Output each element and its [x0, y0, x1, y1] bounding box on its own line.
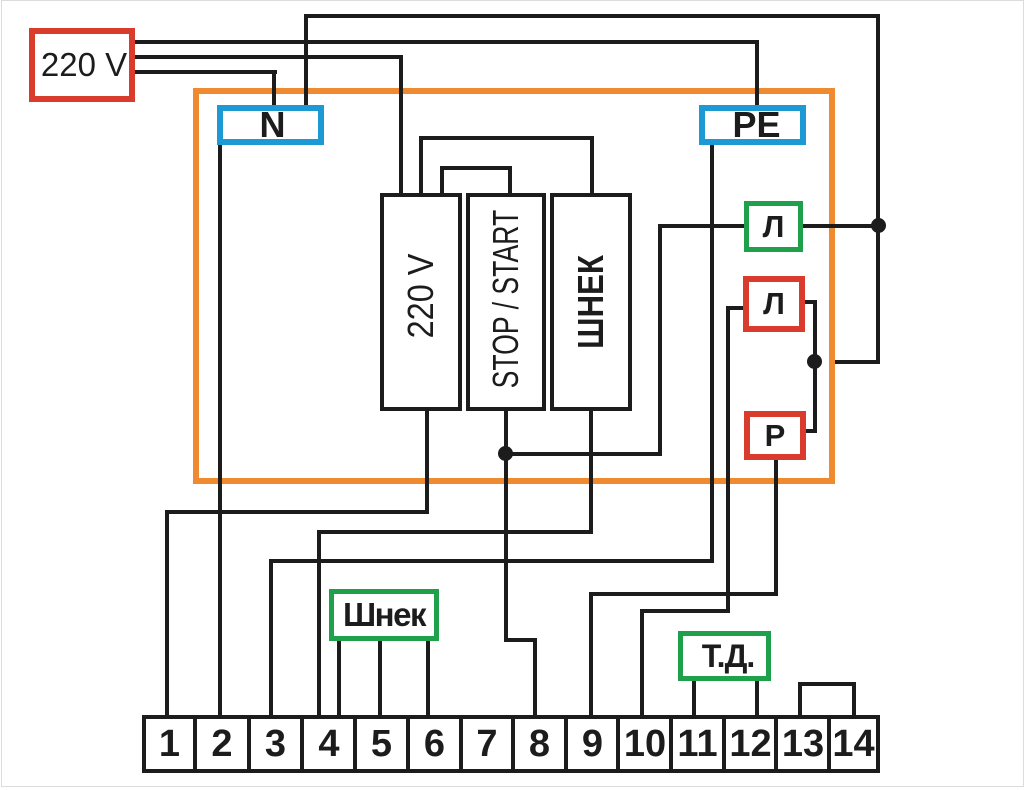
terminal 11: [669, 715, 726, 773]
wire Шнек pin 1 to terminal 4: [337, 641, 341, 715]
wire source to block 220 V: [135, 55, 403, 59]
wire Шнек pin 3 to terminal 6: [426, 641, 430, 715]
terminal 12: [722, 715, 779, 773]
wire block ШНЕК to terminal 4: [589, 411, 593, 534]
wire button Р to terminal 9: [774, 460, 778, 596]
wire source to N: [135, 70, 277, 74]
wire bridge terminals 13-14: [798, 682, 802, 715]
terminal 5: [353, 715, 410, 773]
lamp Л (green): [744, 201, 803, 252]
junction dot B: [807, 354, 822, 369]
wire Т.Д. pin 2 to terminal 12: [755, 681, 759, 715]
terminal 4: [300, 715, 358, 773]
terminal 10: [616, 715, 674, 773]
block 220 V: [380, 193, 462, 411]
block STOP / START: [466, 193, 546, 411]
terminal 14: [827, 715, 880, 773]
terminal 2: [193, 715, 251, 773]
wire button Л to terminal 10: [726, 306, 743, 310]
terminal N: [217, 105, 324, 145]
block ШНЕК: [550, 193, 632, 411]
terminal 13: [774, 715, 832, 773]
terminal strip 1-14: [142, 715, 880, 773]
junction dot C: [498, 446, 513, 461]
wire Т.Д. pin 1 to terminal 11: [692, 681, 696, 715]
button Р (red): [744, 411, 806, 460]
wire N to node A: [304, 14, 308, 107]
wire node A to control box: [876, 226, 880, 362]
wire block STOP/START to terminal 8: [504, 411, 508, 642]
button Л (red): [743, 276, 805, 332]
terminal 3: [247, 715, 304, 773]
orange control unit box: [193, 88, 835, 484]
label box Шнек: [329, 589, 439, 641]
terminal 6: [406, 715, 463, 773]
terminal 8: [511, 715, 568, 773]
terminal 9: [564, 715, 621, 773]
wire source to PE: [135, 40, 759, 44]
wire button Л to button Р: [805, 300, 817, 304]
wire arch 220V to ШНЕК: [419, 136, 423, 197]
junction node A: [871, 218, 886, 233]
wire PE to terminal 3: [710, 145, 714, 563]
wire Шнек pin 2 to terminal 5: [378, 641, 382, 715]
source box 220 V: [29, 28, 135, 102]
terminal PE: [699, 105, 806, 145]
wire block 220V to terminal 1: [425, 411, 429, 514]
label box Т.Д.: [678, 631, 771, 681]
terminal 1: [142, 715, 197, 773]
terminal 7: [459, 715, 515, 773]
wire arch 220V to STOP/START: [440, 166, 444, 197]
wire N to terminal 2: [218, 145, 222, 715]
wire lamp Л to node A: [803, 224, 880, 228]
wire junction C to lamp Л: [506, 452, 662, 456]
